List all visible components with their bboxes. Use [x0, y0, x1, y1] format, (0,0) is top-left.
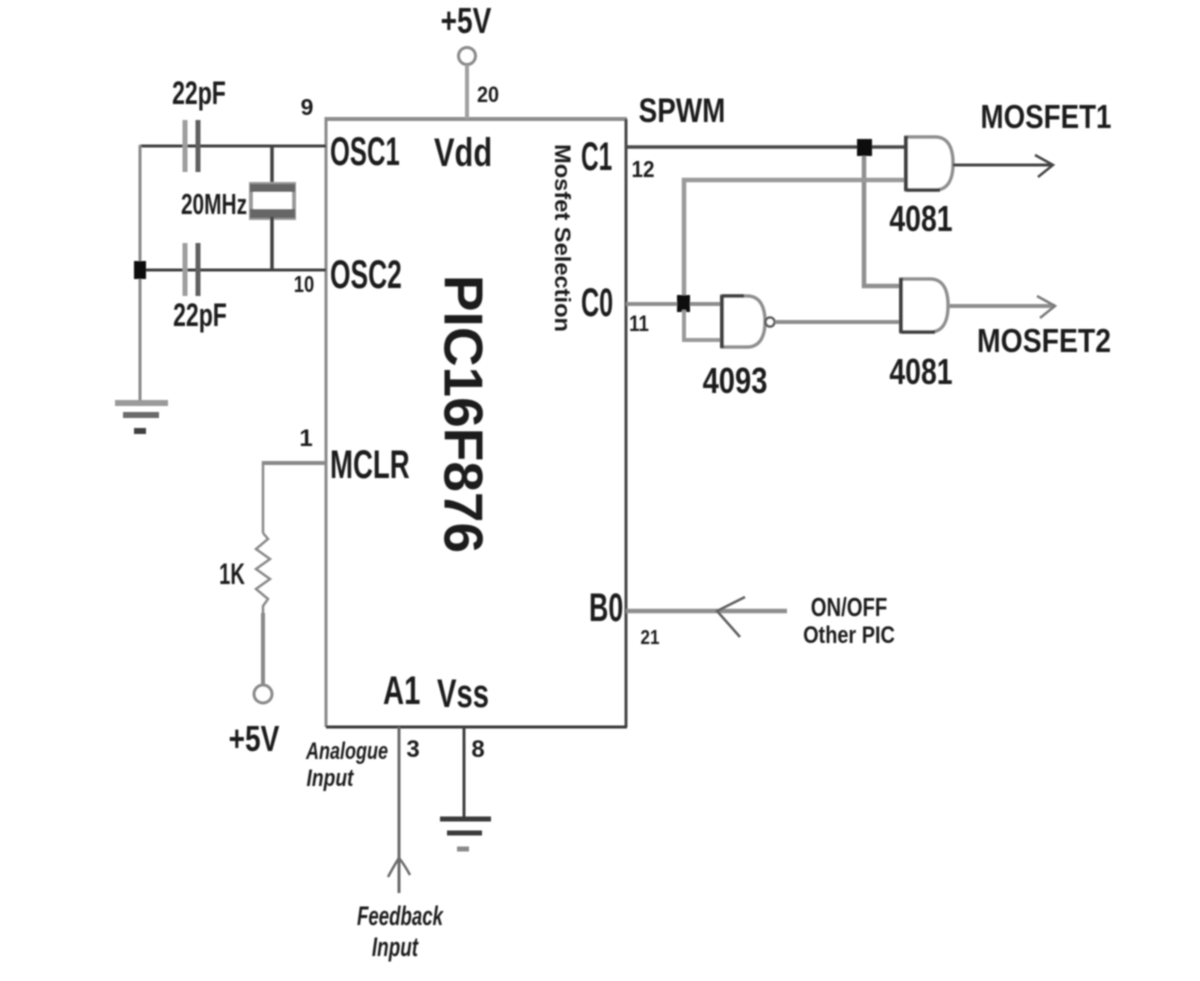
svg-text:MOSFET1: MOSFET1: [981, 99, 1112, 136]
capacitor C1 22pF (top): [172, 75, 226, 172]
ground (oscillator): [115, 403, 168, 431]
wire SPWM (C1 pin 12 to AND gate): [626, 145, 906, 149]
node junction SPWM: [857, 139, 872, 156]
svg-text:C0: C0: [581, 281, 613, 325]
svg-text:MOSFET2: MOSFET2: [977, 322, 1111, 360]
net label Analogue Input: [305, 739, 388, 792]
svg-text:Mosfet Selection: Mosfet Selection: [550, 144, 575, 332]
wire OSC2 net: [140, 269, 326, 272]
svg-text:Input: Input: [372, 932, 419, 962]
node junction C0: [677, 295, 690, 312]
wire C0 net (pin 11 to NAND): [626, 302, 722, 306]
svg-text:21: 21: [641, 626, 660, 649]
AND gate U2 4081 (top): [889, 136, 953, 239]
wire Vss to ground (pin 8): [463, 727, 466, 817]
svg-text:4081: 4081: [889, 352, 952, 392]
svg-text:20: 20: [477, 83, 499, 107]
power +5V terminal (top): [441, 1, 492, 119]
IC U1 PIC16F876 body: [326, 117, 627, 727]
wire Vdd supply: [465, 65, 469, 119]
svg-text:9: 9: [301, 94, 314, 120]
svg-text:A1: A1: [383, 669, 420, 714]
capacitor C2 22pF (bottom): [173, 243, 227, 333]
svg-text:OSC2: OSC2: [330, 253, 402, 298]
AND gate U4 4081 (bottom): [889, 278, 952, 392]
svg-text:3: 3: [406, 736, 419, 763]
crystal X1 20MHz: [181, 146, 295, 270]
svg-text:Other PIC: Other PIC: [803, 621, 895, 648]
svg-text:C1: C1: [581, 135, 612, 180]
wire B0 input (pin 21): [626, 597, 787, 637]
net label ON/OFF Other PIC: [803, 593, 895, 649]
NAND gate U3 4093: [703, 295, 775, 401]
wire C0 lower branch into NAND second input: [684, 310, 722, 340]
wire MOSFET2 output with arrow: [948, 296, 1055, 318]
wire C1-branch down to lower gate: [864, 156, 900, 286]
svg-text:MCLR: MCLR: [330, 443, 410, 487]
wire C0-branch to top gate second input: [684, 180, 906, 303]
svg-text:22pF: 22pF: [172, 75, 226, 111]
net label Feedback Input: [357, 901, 444, 962]
wire A1 analogue input (pin 3): [388, 727, 410, 893]
wire left rail: [139, 145, 142, 401]
wire MCLR net: [263, 461, 326, 533]
svg-text:11: 11: [629, 313, 649, 337]
svg-text:8: 8: [471, 736, 484, 763]
svg-text:ON/OFF: ON/OFF: [811, 593, 888, 622]
wire NAND output to lower AND input: [775, 320, 900, 324]
svg-text:4093: 4093: [703, 360, 768, 401]
svg-text:Input: Input: [307, 764, 355, 792]
svg-text:+5V: +5V: [441, 1, 492, 41]
svg-text:Vss: Vss: [437, 672, 489, 717]
svg-text:Vdd: Vdd: [434, 130, 492, 175]
ground (Vss): [440, 819, 491, 849]
svg-text:B0: B0: [589, 586, 623, 631]
resistor R1 1K: [219, 533, 270, 613]
svg-text:12: 12: [631, 156, 654, 182]
svg-text:10: 10: [294, 272, 314, 297]
wire R1 to +5V terminal: [261, 613, 265, 685]
power +5V terminal (MCLR pull-up): [229, 685, 280, 759]
svg-text:OSC1: OSC1: [330, 130, 400, 174]
svg-text:20MHz: 20MHz: [181, 189, 247, 221]
svg-text:+5V: +5V: [229, 719, 280, 759]
wire OSC1 net: [140, 145, 326, 148]
svg-text:Feedback: Feedback: [357, 901, 444, 931]
svg-text:22pF: 22pF: [173, 297, 227, 333]
node junction on OSC2 rail: [134, 261, 146, 279]
svg-text:PIC16F876: PIC16F876: [432, 275, 494, 553]
svg-text:4081: 4081: [889, 199, 952, 239]
wire MOSFET1 output with arrow: [953, 155, 1053, 177]
svg-text:1: 1: [299, 425, 312, 452]
svg-text:SPWM: SPWM: [639, 91, 726, 129]
svg-text:Analogue: Analogue: [305, 739, 388, 765]
svg-text:1K: 1K: [219, 558, 245, 591]
